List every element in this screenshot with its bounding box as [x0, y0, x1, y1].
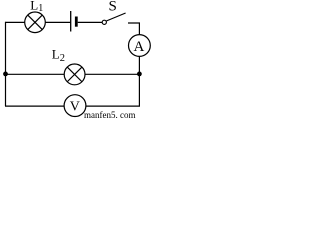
- wire bottom left segment: [5, 105, 64, 107]
- wire middle left segment: [6, 73, 65, 75]
- lamp L1: [25, 12, 46, 33]
- battery B1 short thick plate: [75, 17, 78, 27]
- lamp L2: [64, 64, 85, 85]
- svg-text:A: A: [133, 39, 144, 55]
- wire ammeter to right junction: [138, 56, 140, 74]
- wire switch stub to top-right corner: [128, 23, 139, 35]
- node left junction: [3, 72, 8, 77]
- wire middle right segment: [85, 73, 139, 75]
- ammeter A: [129, 35, 151, 57]
- wire left vertical: [5, 22, 7, 106]
- wire right junction to bottom corner: [86, 74, 139, 106]
- node right junction: [137, 72, 142, 77]
- svg-text:V: V: [70, 99, 80, 114]
- switch S pivot: [102, 20, 106, 24]
- battery B1 long plate: [70, 11, 72, 32]
- svg-text:L1: L1: [30, 0, 43, 14]
- svg-text:manfen5. com: manfen5. com: [84, 110, 135, 120]
- svg-text:S: S: [109, 0, 117, 15]
- wire top left segment: [5, 21, 25, 23]
- wire battery to switch: [78, 21, 103, 23]
- switch S lever: [106, 13, 125, 21]
- wire L1 to battery: [45, 21, 70, 23]
- voltmeter V: [64, 95, 86, 117]
- svg-text:L2: L2: [52, 46, 65, 64]
